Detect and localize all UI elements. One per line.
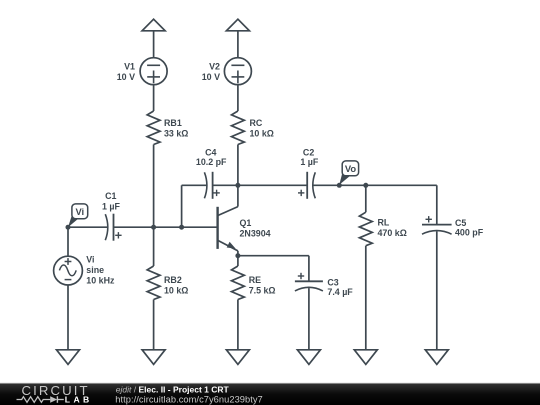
svg-text:C2: C2 bbox=[303, 147, 314, 157]
svg-text:10 kHz: 10 kHz bbox=[86, 275, 115, 285]
svg-text:7.4 µF: 7.4 µF bbox=[327, 287, 353, 297]
svg-text:RL: RL bbox=[378, 217, 390, 227]
svg-text:33 kΩ: 33 kΩ bbox=[164, 128, 188, 138]
svg-text:Vi: Vi bbox=[86, 255, 94, 265]
svg-text:10 kΩ: 10 kΩ bbox=[164, 285, 188, 295]
svg-text:C3: C3 bbox=[327, 277, 338, 287]
svg-text:470 kΩ: 470 kΩ bbox=[378, 228, 407, 238]
svg-text:V1: V1 bbox=[124, 62, 135, 72]
svg-text:RB1: RB1 bbox=[164, 118, 182, 128]
svg-text:7.5 kΩ: 7.5 kΩ bbox=[249, 285, 276, 295]
svg-text:1 µF: 1 µF bbox=[300, 157, 319, 167]
svg-text:Vi: Vi bbox=[75, 206, 84, 217]
svg-text:400 pF: 400 pF bbox=[455, 228, 484, 238]
svg-text:ejdit / Elec. II - Project 1 C: ejdit / Elec. II - Project 1 CRT bbox=[116, 384, 230, 394]
svg-text:C4: C4 bbox=[205, 147, 216, 157]
svg-text:Q1: Q1 bbox=[240, 218, 252, 228]
svg-text:RB2: RB2 bbox=[164, 275, 182, 285]
svg-text:10.2 pF: 10.2 pF bbox=[196, 157, 227, 167]
svg-text:RC: RC bbox=[250, 118, 263, 128]
svg-text:10 kΩ: 10 kΩ bbox=[250, 128, 274, 138]
svg-text:RE: RE bbox=[249, 275, 261, 285]
svg-text:V2: V2 bbox=[209, 62, 220, 72]
svg-text:1 µF: 1 µF bbox=[102, 201, 121, 211]
svg-text:C1: C1 bbox=[105, 191, 116, 201]
svg-text:LAB: LAB bbox=[65, 394, 93, 404]
svg-text:10 V: 10 V bbox=[202, 72, 220, 82]
svg-text:http://circuitlab.com/c7y6nu23: http://circuitlab.com/c7y6nu239bty7 bbox=[115, 394, 262, 404]
svg-text:10 V: 10 V bbox=[117, 72, 135, 82]
svg-text:Vo: Vo bbox=[345, 163, 357, 174]
svg-text:2N3904: 2N3904 bbox=[240, 228, 271, 238]
svg-text:sine: sine bbox=[86, 265, 104, 275]
